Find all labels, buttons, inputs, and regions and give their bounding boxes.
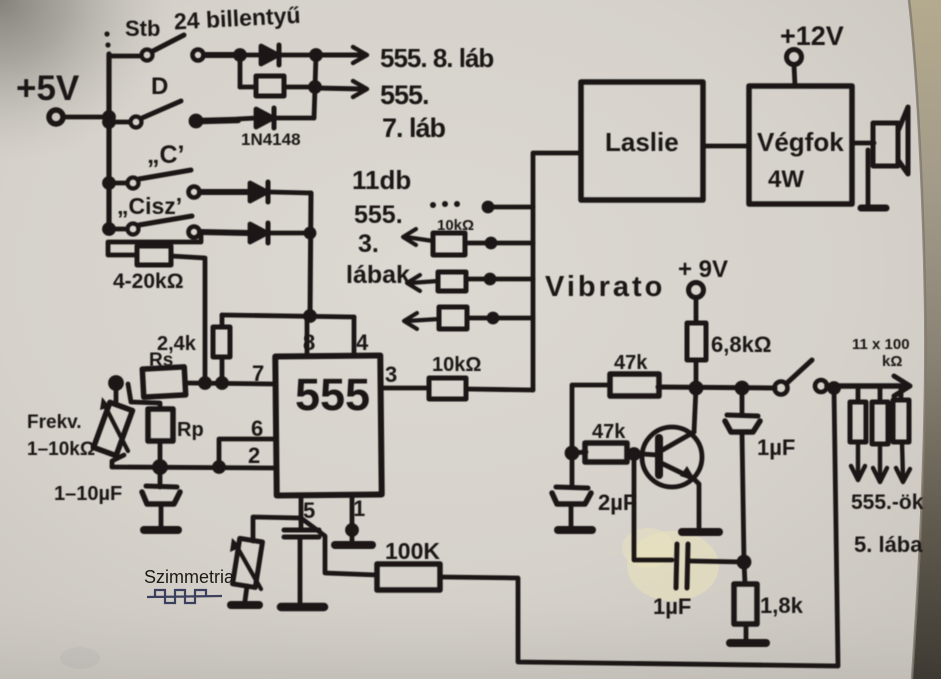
wire node A down [238,55,243,87]
feedback wire [634,454,672,560]
wire 47k b to base [627,453,658,455]
wire trimmer to foot [245,586,247,601]
wire pin5 to 100K [301,518,377,575]
svg-text:555.: 555. [380,80,429,110]
arrow 10k b [407,275,438,291]
node pin6/rail [215,463,224,472]
node 2.4k/pin7 [218,379,227,388]
wire pin8 [305,317,310,356]
svg-text:+5V: +5V [16,69,80,108]
diode D3 [250,182,311,202]
wire Laslie to Vegfok [703,144,749,149]
svg-text:7: 7 [252,361,264,386]
svg-text:10kΩ: 10kΩ [432,354,481,376]
svg-text:Stb: Stb [125,16,160,41]
svg-text:555. 8. láb: 555. 8. láb [380,43,493,73]
svg-text:1N4148: 1N4148 [241,130,301,149]
wire arrow to 555 8.lab [316,47,367,63]
svg-text:1,8k: 1,8k [760,593,804,618]
svg-text:kΩ: kΩ [882,353,902,370]
svg-text:100K: 100K [385,538,440,564]
trimmer arrow [230,538,261,589]
wire 2.4k top [220,315,225,327]
svg-text:Végfok: Végfok [757,127,844,157]
wire 2uF top [570,453,575,487]
wire 1.8k top [744,562,745,584]
arrow 10k a [403,229,433,245]
top rail pins 8 4 [222,315,354,317]
arrow 10k c [404,313,439,329]
capacitor 1uF series [676,544,744,588]
svg-text:1: 1 [353,496,365,521]
ground foot pin5 cap [281,603,324,612]
node B row1 [312,51,321,60]
resistor 47k a [610,374,659,396]
svg-text:555.: 555. [354,201,403,229]
svg-text:8: 8 [303,330,315,355]
resistor 10k a [433,233,465,255]
wire pin3 [381,386,429,391]
svg-text:lábak: lábak [346,261,410,289]
resistor 100k r1 [850,387,866,480]
wire pin4 [352,317,357,356]
faint smudge [60,647,100,669]
IC 555 U1 [275,355,381,495]
svg-text:47k: 47k [592,421,626,443]
resistor 100K [377,564,440,590]
svg-text:5. lába: 5. lába [854,532,923,557]
dots continuation above bus [104,31,109,36]
square wave symbol [147,590,222,603]
vibrato rail [658,387,775,388]
svg-text:Rs: Rs [149,350,173,371]
wire pin5 branch left [253,517,301,541]
resistor 100k r2 [872,387,888,482]
wire 10k to mid bus [466,389,533,390]
svg-text:1–10kΩ: 1–10kΩ [27,439,95,460]
switch C [105,170,249,198]
wire Rs-left to Rp top [128,384,160,409]
ground foot emitter [682,528,719,536]
top-left corner shadow [0,0,175,165]
box Laslie [581,82,703,200]
wire pin5 [299,495,304,522]
svg-text:47k: 47k [614,352,648,374]
resistor 2.4k vertical [213,327,230,357]
svg-text:11db: 11db [352,165,411,195]
node Cisz diode / bus [306,229,314,237]
switch Cisz [105,216,249,238]
svg-text:4-20kΩ: 4-20kΩ [113,270,184,293]
ground foot 2uF [558,526,592,534]
resistor Rp [148,409,173,441]
wire D2 up to node C [314,88,315,118]
speaker ground wire [866,150,871,206]
wire 47k a left down [572,385,610,453]
+12V terminal [787,50,802,65]
diode D2 [256,108,314,128]
wire +5V to bus [63,115,109,120]
svg-text:Laslie: Laslie [605,127,679,157]
node 4-20k/pin7 [201,379,210,388]
wire diode bus right [310,193,311,317]
node feedback right [739,557,749,567]
dots 11db [430,202,436,208]
bottom shading [0,600,941,679]
wire 10k c [467,316,533,321]
wire pin1 [350,495,355,541]
switch D [105,101,239,128]
transistor Q1 [642,427,702,487]
node rail/diode-bus [306,312,315,321]
ground foot pin1 [335,541,372,549]
resistor Rs [142,367,185,397]
svg-text:11 x 100: 11 x 100 [852,336,910,353]
resistor 1.8k [734,584,757,624]
svg-text:Szimmetria: Szimmetria [144,567,235,587]
svg-text:Rp: Rp [177,419,204,441]
svg-text:D: D [151,73,168,100]
bottom rail pin2 [112,467,276,468]
svg-text:555.-ök: 555.-ök [851,491,924,514]
svg-text:4: 4 [356,330,369,355]
wire 4-20k tap from Cisz [108,233,201,255]
svg-text:Vibrato: Vibrato [545,271,665,303]
switch vibrato [775,360,828,395]
wire emitter [694,479,699,529]
svg-text:+12V: +12V [780,21,844,51]
svg-text:6: 6 [251,416,263,441]
svg-text:1µF: 1µF [757,435,795,460]
svg-text:555: 555 [295,369,370,420]
potentiometer Frekv 1-10k [94,402,133,455]
mid bus [533,153,581,390]
wire 100K right down [440,390,838,666]
resistor 4-20k [137,246,171,265]
svg-text:2: 2 [248,443,260,468]
svg-text:3.: 3. [358,230,379,258]
svg-text:2µF: 2µF [598,490,636,515]
wire +9V to 6.8k [694,298,699,323]
diode D1 [261,45,314,65]
capacitor 2uF [552,487,591,527]
wire resistor to node C [284,85,313,90]
resistor 10k c [439,307,467,329]
capacitor 1uF right [725,388,760,562]
wire 6.8k down [694,360,699,388]
speaker [873,107,908,174]
capacitor pin5 [284,522,319,603]
box Vegfok 4W [749,86,852,204]
node base feedback [630,450,639,459]
node C row2 [311,83,320,92]
capacitor 1-10uF [142,467,180,530]
node Rp/rail [155,462,166,473]
wire 1.8k bottom [744,624,749,640]
resistor 10k b [438,272,466,291]
svg-text:6,8kΩ: 6,8kΩ [711,332,771,357]
wire 10k b [466,277,533,282]
ground foot 1.8k [730,639,766,647]
wire node to 47k b [572,452,586,453]
svg-text:„C’: „C’ [147,141,185,169]
wire dots row [488,205,533,210]
wire node B to node C [315,55,316,87]
wire arrow to 555 7.lab [315,81,367,97]
resistor R-row1 [256,76,284,96]
wire 10k a [465,241,533,246]
resistor 6.8k [687,323,706,360]
svg-text:+ 9V: + 9V [678,256,728,283]
resistor 10k out [429,378,466,399]
wire to resistor R-row1 [240,85,256,90]
svg-text:1–10µF: 1–10µF [54,483,122,505]
switch Stb [109,35,238,61]
svg-text:7. láb: 7. láb [382,113,446,143]
node bus/+5V [105,113,114,122]
node 1uF tap [737,383,747,393]
svg-text:3: 3 [385,362,397,387]
wire +12V [794,65,795,86]
svg-text:10kΩ: 10kΩ [437,217,474,234]
wire to diode D2 [238,118,256,119]
trimmer Szimmetria [233,538,263,587]
wire +5V bus [106,54,111,231]
table background right strip [909,0,941,679]
node A row1 [236,51,245,60]
wire collector [694,388,696,432]
wire arrow 11x100k rail [827,376,910,396]
wire pin6 [219,439,276,467]
wire Vegfok out [852,141,874,146]
node 47k b left [567,448,577,458]
wire pot bottom to rail [112,455,124,467]
node right rail [830,384,839,393]
node pin1 [348,526,357,535]
yellow stain [627,531,719,601]
wire pin7 row [185,383,276,384]
diode D4 [250,223,311,243]
resistor 100k r3 [893,387,910,482]
wire Rp bottom [158,441,163,467]
svg-text:„Cisz’: „Cisz’ [117,193,182,219]
node Rs left [111,378,122,389]
+9V terminal [689,283,704,298]
svg-text:5: 5 [303,498,315,523]
speaker foot [861,205,886,212]
wire 2.4k bottom [220,357,225,383]
wire Rs-left to pot [114,383,119,404]
pot wiper arrow [100,397,128,451]
wire 4-20k to pin7 column [171,256,205,382]
ground foot trimmer [231,601,259,609]
svg-text:Frekv.: Frekv. [27,412,82,433]
svg-text:1µF: 1µF [653,594,691,619]
svg-text:4W: 4W [768,166,804,193]
wire node A to diode D1 [240,53,258,58]
+5V terminal [49,110,63,124]
resistor 47k b [585,443,627,462]
node collector [691,383,701,393]
